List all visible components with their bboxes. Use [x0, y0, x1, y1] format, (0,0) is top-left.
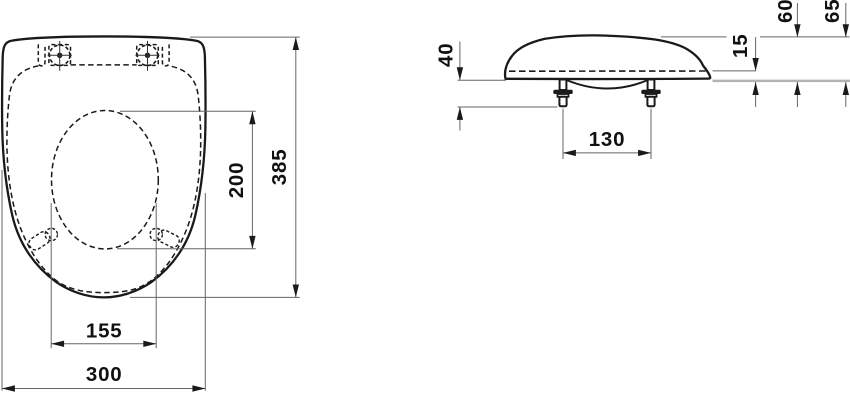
seat opening oval (dashed)	[52, 111, 159, 249]
right bolt	[641, 80, 660, 107]
dimension 40: dimension line and arrows (outside)	[459, 42, 461, 81]
svg-text:300: 300	[86, 363, 123, 386]
svg-text:130: 130	[589, 128, 626, 151]
right bumper circle (dashed)	[150, 228, 162, 240]
right bumper bracket (dashed)	[156, 228, 181, 249]
hinge housing connecting line (dashed)	[71, 64, 137, 66]
svg-text:65: 65	[821, 0, 844, 23]
hinge bolt left: center dot	[57, 53, 62, 58]
hinge bolt left: dashed circle	[50, 45, 70, 65]
svg-text:15: 15	[729, 34, 752, 58]
left bumper bracket (dashed)	[27, 230, 52, 252]
hinge bolt right: crosshair	[135, 54, 159, 56]
dimension 155: dimension line	[51, 343, 156, 345]
left bolt	[553, 80, 572, 107]
seat profile (side view)	[505, 35, 710, 79]
hinge bar arc between bolts	[567, 80, 649, 89]
dimension 200: extension lines	[120, 110, 256, 112]
dimension 200: dimension line	[251, 111, 253, 249]
hinge housing left (dashed square)	[49, 45, 71, 66]
lid/ring joint line (dashed)	[509, 70, 707, 72]
dimension 155: extension lines	[50, 203, 52, 348]
dimension 155: arrowheads	[51, 341, 64, 347]
dimension 130: dimension line	[563, 152, 651, 154]
left bumper circle (dashed)	[45, 228, 57, 240]
hinge bolt right: center dot	[145, 53, 150, 58]
svg-text:385: 385	[268, 149, 291, 186]
dimension 15: dimension line and arrows (outside)	[755, 37, 757, 71]
hinge bolt left: crosshair	[48, 54, 72, 56]
dimension 60: dimension line and arrows (outside)	[796, 3, 798, 37]
dimension 385: extension lines	[190, 36, 300, 38]
dimension 300: arrowheads	[2, 385, 15, 391]
dimension 300: extension lines	[1, 170, 3, 391]
svg-text:155: 155	[86, 319, 123, 342]
svg-text:40: 40	[434, 43, 457, 67]
lid outer outline (top view)	[2, 36, 205, 297]
top reference line (65/60 level)	[661, 36, 727, 38]
svg-text:200: 200	[225, 162, 248, 199]
dimension 130: extension lines	[562, 109, 564, 159]
dimension 15: extension line	[713, 70, 756, 72]
dimension 40: extension lines	[458, 79, 507, 81]
seat ring hidden outline (dashed)	[7, 66, 201, 293]
dimension 385: arrowheads	[293, 37, 299, 50]
svg-text:60: 60	[774, 0, 797, 23]
hinge housing right (dashed square)	[137, 45, 159, 66]
left side bracket (dashed)	[38, 44, 45, 66]
dimension 385: dimension line	[295, 37, 297, 297]
dimension 200: arrowheads	[249, 111, 255, 124]
dimension 65: dimension line and arrows (outside)	[845, 3, 847, 37]
right side bracket (dashed)	[162, 44, 169, 66]
hinge bolt right: dashed circle	[137, 45, 157, 65]
dimension 300: dimension line	[2, 388, 205, 390]
bowl reference plane (gray line)	[713, 80, 850, 83]
dimension 130: arrowheads	[563, 150, 576, 156]
